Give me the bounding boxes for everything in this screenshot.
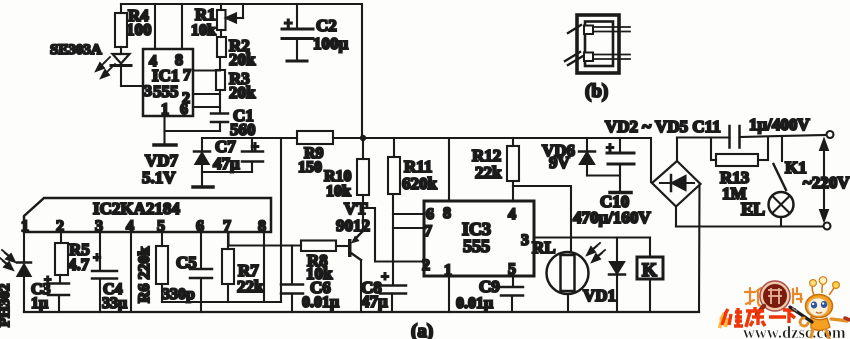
resistor R2 — [217, 36, 256, 70]
wire bridge top to right terminal — [677, 136, 730, 138]
capacitor C3 — [31, 272, 69, 312]
wire IC1 pin6 — [193, 106, 220, 108]
wire bus drop x281 — [280, 138, 282, 302]
svg-text:C5: C5 — [176, 253, 197, 272]
switch K1 — [774, 136, 807, 190]
svg-text:5.1V: 5.1V — [142, 168, 176, 187]
svg-text:+: + — [93, 251, 101, 266]
terminal top ~220V — [827, 131, 834, 138]
svg-text:47μ: 47μ — [213, 154, 240, 173]
svg-text:33μ: 33μ — [102, 295, 127, 312]
svg-text:(b): (b) — [585, 81, 608, 102]
svg-text:555: 555 — [463, 236, 490, 256]
svg-text:PH302: PH302 — [0, 284, 13, 327]
watermark logo dzsc — [720, 277, 850, 339]
wire IC3 pin1 to ground bus — [448, 276, 450, 312]
svg-text:0.01μ: 0.01μ — [302, 294, 339, 311]
wire IC2 pin8 — [263, 232, 265, 302]
resistor R6 — [136, 232, 168, 303]
resistor R9 — [297, 131, 333, 176]
resistor R7 — [222, 232, 264, 302]
capacitor C8 — [361, 270, 406, 312]
svg-text:IC2KA2184: IC2KA2184 — [93, 199, 180, 218]
svg-text:EL: EL — [741, 199, 765, 219]
svg-text:22k: 22k — [475, 163, 502, 182]
terminal bottom ~220V — [824, 223, 831, 230]
light arrows of RL — [587, 243, 605, 262]
transistor VT 9012 — [336, 195, 370, 312]
svg-text:47μ: 47μ — [361, 292, 388, 311]
svg-text:3: 3 — [144, 83, 152, 100]
wire top supply bus — [121, 4, 362, 135]
svg-text:620k: 620k — [402, 174, 438, 193]
resistor R3 — [216, 69, 256, 113]
capacitor C1 — [165, 106, 256, 139]
svg-text:4: 4 — [508, 206, 516, 223]
wire IC1 pin8 to bus — [181, 4, 183, 49]
wire IC3 pin8 to bus — [448, 138, 450, 201]
svg-text:10k: 10k — [326, 183, 351, 200]
diode VD1 — [583, 238, 625, 312]
bridge rectifier VD2~VD5 — [605, 117, 721, 311]
resistor R12 — [472, 138, 519, 201]
wire IC1 pin2 — [193, 93, 220, 95]
svg-text:www.dzsc.com: www.dzsc.com — [743, 323, 846, 339]
capacitor C9 — [456, 276, 523, 312]
svg-text:VD1: VD1 — [583, 286, 616, 305]
wire IC1 pin7 — [193, 69, 220, 71]
photodiode PH302 — [0, 232, 31, 327]
svg-text:0.01μ: 0.01μ — [456, 295, 493, 312]
svg-text:C2: C2 — [316, 16, 337, 35]
svg-text:9012: 9012 — [336, 216, 370, 235]
svg-text:3: 3 — [521, 232, 529, 249]
svg-text:7: 7 — [424, 223, 432, 240]
resistor R13 — [711, 137, 768, 203]
magnifier with chip — [757, 281, 790, 314]
svg-text:1μ/400V: 1μ/400V — [749, 115, 810, 134]
svg-text:20k: 20k — [229, 50, 256, 69]
svg-text:8: 8 — [443, 205, 451, 222]
svg-text:6: 6 — [180, 101, 188, 118]
svg-text:150: 150 — [298, 159, 322, 176]
light arrows of PH302 — [0, 250, 15, 270]
capacitor C7 — [202, 137, 263, 173]
resistor R10 — [324, 141, 369, 200]
outlined char pian — [793, 288, 802, 303]
arrow ~220V — [803, 140, 850, 221]
zener VD6 9V — [542, 138, 620, 176]
capacitor C6 — [281, 246, 339, 313]
svg-text:~220V: ~220V — [803, 173, 850, 192]
svg-text:K: K — [642, 260, 657, 281]
wire bottom ground bus — [24, 311, 699, 313]
svg-text:22k: 22k — [237, 277, 264, 296]
svg-text:100: 100 — [126, 20, 152, 39]
svg-text:+: + — [284, 16, 293, 32]
wire IC1 pin4 to bus — [154, 4, 156, 49]
resistor R4 — [115, 4, 152, 54]
wire LED to IC1 pin3 — [121, 85, 143, 87]
potentiometer R1 — [191, 4, 243, 39]
wire IC2 pin4 to ground bus — [130, 232, 132, 312]
capacitor C10 — [573, 138, 651, 227]
svg-text:RL: RL — [532, 238, 556, 257]
zener VD7 5.1V — [142, 138, 210, 187]
svg-text:+: + — [606, 141, 614, 156]
LED SE303A (IR emitter diode) — [50, 42, 131, 86]
capacitor C11 — [730, 115, 827, 148]
svg-text:(a): (a) — [411, 321, 433, 339]
resistor R11 — [388, 138, 438, 285]
capacitor C2 — [282, 4, 349, 61]
svg-text:SE303A: SE303A — [50, 42, 102, 58]
resistor R8 — [229, 232, 349, 283]
svg-text:330p: 330p — [162, 286, 195, 303]
svg-text:20k: 20k — [229, 83, 256, 102]
wire bottom AC line — [676, 225, 823, 227]
svg-text:9V: 9V — [549, 153, 571, 172]
svg-text:C9: C9 — [479, 277, 500, 296]
light arrows of SE303A — [96, 57, 115, 78]
svg-text:R6 220k: R6 220k — [136, 246, 153, 303]
red text wei ku yi xia — [720, 313, 728, 328]
IC2 KA2184 — [21, 198, 271, 235]
photoresistor RL — [513, 186, 589, 312]
wire to IC3 pin6 — [393, 213, 424, 215]
svg-text:VD2 ~ VD5 C11: VD2 ~ VD5 C11 — [605, 117, 721, 136]
wire main positive bus — [202, 137, 650, 139]
node junction bus/R10/C2 — [360, 135, 366, 141]
svg-text:10k: 10k — [191, 22, 216, 39]
wire emitter node to IC3 pin2 — [363, 208, 424, 262]
resistor R5 — [55, 232, 90, 275]
wire to IC3 pin7 — [393, 227, 424, 229]
mascot — [790, 277, 850, 338]
outlined char zhao — [745, 288, 762, 306]
svg-text:+: + — [251, 140, 259, 155]
svg-text:+: + — [381, 270, 389, 285]
relay coil K — [637, 238, 663, 312]
svg-text:1μ: 1μ — [31, 295, 48, 312]
capacitor C4 — [92, 232, 127, 312]
svg-text:470μ/160V: 470μ/160V — [573, 208, 651, 227]
wire net y302 — [162, 301, 281, 303]
svg-text:2: 2 — [422, 257, 430, 274]
svg-text:4.7: 4.7 — [68, 255, 90, 274]
capacitor C5 — [162, 232, 212, 312]
timer IC3 555 — [422, 201, 534, 279]
lamp EL — [741, 192, 794, 227]
svg-text:6: 6 — [426, 206, 434, 223]
svg-text:7: 7 — [183, 67, 191, 84]
figure b remote sensor — [565, 15, 630, 102]
ground VD7/C7 — [193, 185, 213, 189]
svg-text:100μ: 100μ — [313, 34, 349, 53]
op-amp/timer IC1 3555 — [143, 49, 193, 118]
wire IC3 pin3 net — [534, 236, 650, 238]
svg-text:555: 555 — [153, 82, 179, 101]
ground IC1 pin1 — [154, 116, 176, 145]
label (a) — [411, 321, 433, 339]
